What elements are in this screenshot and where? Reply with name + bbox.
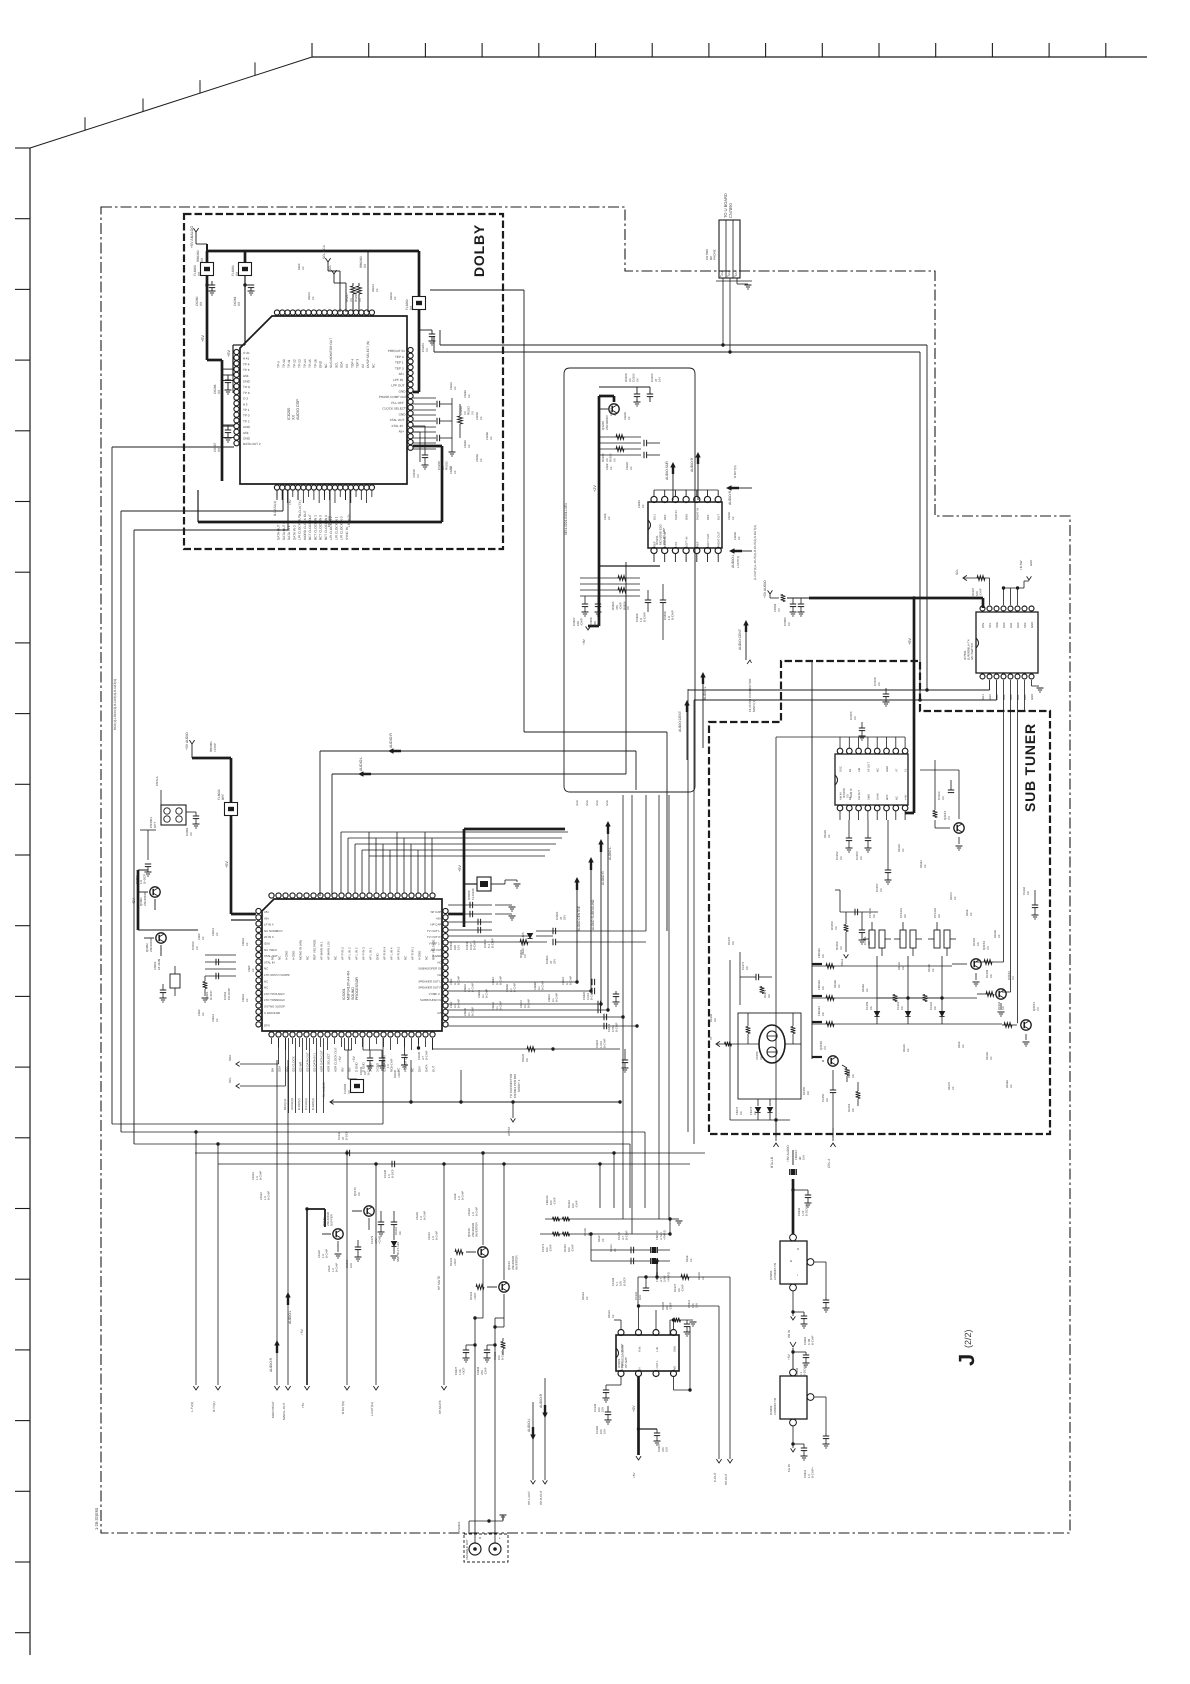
wires exit DOLBY bottom-left xyxy=(121,510,283,512)
svg-text:LTO 3OS'O OUOPF: LTO 3OS'O OUOPF xyxy=(264,973,290,977)
svg-text:A5+: A5+ xyxy=(264,910,270,914)
svg-text:XX: XX xyxy=(823,1046,827,1050)
svg-text:BCK(1)-LRCK(2)-B-DAT(2)-B-DAT(: BCK(1)-LRCK(2)-B-DAT(2)-B-DAT(4) xyxy=(113,679,117,730)
svg-text:AM IN: AM IN xyxy=(840,792,843,800)
svg-text:XX: XX xyxy=(787,622,791,626)
transistor Q6260 xyxy=(609,404,619,414)
svg-text:NC: NC xyxy=(877,768,880,772)
svg-text:25V: 25V xyxy=(553,959,557,964)
svg-text:XX: XX xyxy=(947,816,951,820)
svg-text:V REF 1: V REF 1 xyxy=(429,942,440,946)
jack caps cluster xyxy=(466,1344,475,1346)
svg-text:HP-MUTE: HP-MUTE xyxy=(438,1400,442,1414)
svg-text:B1: B1 xyxy=(849,768,852,772)
svg-text:C6232: C6232 xyxy=(450,466,453,474)
b.out and l.out drops xyxy=(346,1153,348,1385)
svg-text:XX: XX xyxy=(859,856,863,860)
svg-text:AUDIO R: AUDIO R xyxy=(539,1393,543,1408)
svg-text:LTO TONNNGO: LTO TONNNGO xyxy=(264,998,286,1002)
svg-text:MAIN (1): MAIN (1) xyxy=(752,700,756,712)
svg-text:XX: XX xyxy=(246,942,249,946)
svg-text:R OUT: R OUT xyxy=(621,1343,624,1352)
svg-text:LF50CBT-TR: LF50CBT-TR xyxy=(773,1263,777,1280)
svg-text:+5V: +5V xyxy=(639,1367,642,1372)
comb of wires into IC6001 top xyxy=(340,832,342,893)
svg-text:C6268: C6268 xyxy=(486,432,489,440)
IC7501 SCL input with resistor xyxy=(963,575,967,580)
bottom pin vertical bundle xyxy=(288,1038,290,1113)
svg-text:AUDIO DSP: AUDIO DSP xyxy=(296,399,300,420)
svg-text:L/R CLOCK IN 0: L/R CLOCK IN 0 xyxy=(340,516,344,540)
jack ground bracket xyxy=(469,1520,503,1522)
IC6801 pin wires top xyxy=(620,1320,622,1330)
audio r arrow xyxy=(695,452,701,464)
svg-text:GND: GND xyxy=(243,437,251,441)
svg-text:XX: XX xyxy=(292,414,296,420)
svg-text:DATA OUT 2: DATA OUT 2 xyxy=(243,442,261,446)
transistor Q6154 xyxy=(954,823,964,833)
svg-text:TP-13: TP-13 xyxy=(298,359,302,368)
IC6261 pin stubs bottom xyxy=(653,554,655,562)
IC7501 top pins xyxy=(980,606,985,611)
svg-text:RIGHT IN: RIGHT IN xyxy=(695,508,699,520)
svg-text:XX: XX xyxy=(745,966,749,970)
right resistors to bases xyxy=(984,960,992,965)
svg-text:XX: XX xyxy=(216,932,219,936)
svg-text:0.1: 0.1 xyxy=(454,1004,457,1008)
svg-text:C6246: C6246 xyxy=(464,440,467,448)
IC6261 top pins xyxy=(651,496,657,502)
svg-text:B-CHIP: B-CHIP xyxy=(556,993,559,1002)
svg-text:AF P IN 2: AF P IN 2 xyxy=(341,947,345,960)
long vertical buses from DOLBY to bottom xyxy=(111,447,113,1124)
svg-text:B-CHIP: B-CHIP xyxy=(590,990,594,1000)
svg-text:C6816: C6816 xyxy=(464,984,467,992)
svg-text:C6824: C6824 xyxy=(562,977,565,985)
svg-text:CH-CHIP: CH-CHIP xyxy=(227,988,231,1000)
svg-text:B-CHIP: B-CHIP xyxy=(390,1058,394,1068)
svg-text:XX: XX xyxy=(523,954,527,958)
svg-text:XX: XX xyxy=(879,888,883,892)
svg-text:B-CHIP: B-CHIP xyxy=(615,1022,619,1032)
outer board boundary (dash-dot) xyxy=(101,207,1070,1533)
audio cent arrow lower xyxy=(684,700,690,712)
svg-text:C6816: C6816 xyxy=(464,1008,467,1016)
svg-text:XX: XX xyxy=(480,416,483,420)
svg-text:TV OUT L: TV OUT L xyxy=(427,929,440,933)
svg-text:I2S DATA OUT: I2S DATA OUT xyxy=(306,1052,310,1072)
svg-text:B-CHIP: B-CHIP xyxy=(425,1050,429,1060)
svg-text:PREOUT IN: PREOUT IN xyxy=(388,349,405,353)
svg-text:CLOCK SELECT: CLOCK SELECT xyxy=(382,407,406,411)
svg-text:R6120: R6120 xyxy=(698,1272,701,1280)
svg-text:(2/2): (2/2) xyxy=(963,1329,973,1348)
junction feeds xyxy=(655,1259,658,1262)
svg-text:C600: C600 xyxy=(198,933,201,940)
svg-text:GND: GND xyxy=(886,766,889,772)
svg-text:PROCESSOR: PROCESSOR xyxy=(355,977,359,1000)
svg-text:0151-9021-0191-L9E1: 0151-9021-0191-L9E1 xyxy=(564,503,568,535)
svg-text:DA3: DA3 xyxy=(1002,622,1006,628)
svg-text:TP 4: TP 4 xyxy=(243,362,250,366)
svg-text:GND: GND xyxy=(576,800,579,806)
R6165 C6811 cluster xyxy=(670,1319,693,1321)
op IC6261 surround amp xyxy=(648,502,722,548)
svg-text:DATA: DATA xyxy=(425,1064,429,1072)
left side capacitor cluster C6266 xyxy=(222,374,233,376)
svg-text:GND: GND xyxy=(586,800,589,806)
svg-text:MSP3410Y-A4-R4: MSP3410Y-A4-R4 xyxy=(346,971,350,1000)
row3 with beads xyxy=(591,1249,670,1251)
audio cent arrow down group xyxy=(743,620,749,632)
bold +5V drop to IC left side xyxy=(206,298,209,360)
svg-text:Y1: Y1 xyxy=(905,768,908,772)
long vertical audio buses center page xyxy=(576,889,578,982)
svg-text:AM-2: AM-2 xyxy=(840,959,844,966)
svg-text:B-CHIP: B-CHIP xyxy=(260,1171,263,1180)
svg-text:NC: NC xyxy=(264,979,268,983)
svg-text:+8V AUDIO: +8V AUDIO xyxy=(786,1145,790,1162)
svg-text:AF L IN 4: AF L IN 4 xyxy=(390,947,394,960)
svg-text:3 GND: 3 GND xyxy=(376,1062,380,1072)
svg-text:IC6260: IC6260 xyxy=(287,408,291,420)
svg-text:BCT CLOCK OUT: BCT CLOCK OUT xyxy=(308,514,312,540)
svg-text:R IN: R IN xyxy=(639,1347,642,1352)
main out drop wires xyxy=(276,1060,278,1385)
svg-text:+B SW: +B SW xyxy=(1019,560,1023,570)
left RC ladder xyxy=(205,954,236,956)
svg-text:XX: XX xyxy=(252,968,255,972)
wire Q6154 collector xyxy=(958,770,960,819)
svg-text:BCT CLOCK IN 0: BCT CLOCK IN 0 xyxy=(319,515,323,540)
svg-text:NC: NC xyxy=(895,796,898,800)
svg-text:R6120: R6120 xyxy=(898,962,901,970)
IC6001 top pin row xyxy=(269,893,274,898)
svg-text:XX: XX xyxy=(454,386,457,390)
IC6001 left pin column xyxy=(256,908,261,913)
svg-text:C600: C600 xyxy=(248,965,251,972)
svg-text:XX: XX xyxy=(933,1006,937,1010)
svg-text:A GND: A GND xyxy=(418,950,422,960)
svg-text:C6228: C6228 xyxy=(626,462,629,470)
svg-text:O 3: O 3 xyxy=(243,397,248,401)
svg-text:1.0: 1.0 xyxy=(322,1254,325,1258)
IC7501 pin2 wire from I2C bus xyxy=(919,352,921,700)
svg-text:TP-15: TP-15 xyxy=(308,359,312,368)
svg-text:+5V: +5V xyxy=(458,865,462,872)
svg-text:18.432M: 18.432M xyxy=(157,958,161,970)
svg-text:XX: XX xyxy=(202,936,205,940)
svg-text:C616: C616 xyxy=(454,1193,457,1200)
svg-text:DUFFER: DUFFER xyxy=(330,1214,334,1226)
svg-text:L IN: L IN xyxy=(656,1347,659,1352)
audio direction arrows center xyxy=(574,877,580,890)
svg-text:XX: XX xyxy=(1036,1007,1040,1011)
svg-text:TP 0: TP 0 xyxy=(243,414,250,418)
svg-text:AF OUT: AF OUT xyxy=(867,762,870,772)
svg-text:+CHIP: +CHIP xyxy=(213,743,217,752)
svg-text:PHASE COMP OUT: PHASE COMP OUT xyxy=(379,395,407,399)
svg-text:I20U: I20U xyxy=(264,942,270,946)
svg-text:A GND: A GND xyxy=(432,954,441,958)
svg-text:SCL: SCL xyxy=(988,622,992,628)
svg-text:MONO IN (AN): MONO IN (AN) xyxy=(299,940,303,960)
svg-text:A 41: A 41 xyxy=(243,357,249,361)
svg-text:XX: XX xyxy=(902,848,905,852)
svg-text:B-CHIP: B-CHIP xyxy=(603,1038,607,1048)
svg-text:SDA: SDA xyxy=(995,622,999,628)
filter FL6003 xyxy=(351,1080,364,1093)
svg-text:D+DCP: D+DCP xyxy=(143,874,147,884)
svg-text:B-DCP: B-DCP xyxy=(391,1169,395,1178)
svg-text:1.0: 1.0 xyxy=(256,1176,259,1180)
IC6261 bottom pins xyxy=(651,547,657,553)
svg-text:BH: BH xyxy=(271,1068,275,1072)
svg-text:+5V: +5V xyxy=(132,898,136,905)
svg-text:+5V AUDIO: +5V AUDIO xyxy=(763,580,767,598)
svg-text:OSTNG 3UOOF: OSTNG 3UOOF xyxy=(264,1005,285,1009)
svg-text:XX: XX xyxy=(825,1098,829,1102)
svg-text:XX: XX xyxy=(753,1111,757,1115)
svg-text:B3: B3 xyxy=(849,796,852,800)
svg-text:XX: XX xyxy=(986,946,990,950)
svg-text:LEFT OUT: LEFT OUT xyxy=(706,533,710,547)
svg-text:XX: XX xyxy=(1001,1006,1005,1010)
svg-text:B-DCP: B-DCP xyxy=(345,1131,349,1140)
svg-text:XX: XX xyxy=(586,1296,589,1300)
svg-text:R618: R618 xyxy=(686,1255,689,1262)
svg-text:XX: XX xyxy=(970,912,973,916)
audio R fat arrow on bus xyxy=(388,748,401,754)
svg-text:0.1: 0.1 xyxy=(482,994,485,998)
svg-text:R6150: R6150 xyxy=(928,964,931,972)
svg-text:AUDIO L: AUDIO L xyxy=(527,1418,531,1432)
cn6001 caps xyxy=(186,811,196,813)
svg-text:XX: XX xyxy=(731,941,735,945)
svg-text:TP 2: TP 2 xyxy=(243,419,250,423)
svg-text:XX: XX xyxy=(349,298,353,302)
svg-text:C6232: C6232 xyxy=(450,382,453,390)
left crystal cluster xyxy=(170,974,180,988)
svg-text:A 5: A 5 xyxy=(243,402,248,406)
+5V pins and FL6003 xyxy=(344,1038,346,1050)
svg-text:+HV: +HV xyxy=(905,794,908,800)
svg-text:TP-14: TP-14 xyxy=(303,359,307,368)
svg-text:XX: XX xyxy=(630,466,633,470)
svg-text:R6210: R6210 xyxy=(308,292,311,300)
svg-text:XX: XX xyxy=(358,298,362,302)
svg-text:AF L IN 1: AF L IN 1 xyxy=(369,947,373,960)
crystal X6260 cluster xyxy=(413,425,425,427)
svg-text:NC: NC xyxy=(264,967,268,971)
svg-text:C6844: C6844 xyxy=(492,1002,495,1010)
IC7501 output wires down to tuner xyxy=(1003,680,1005,712)
svg-text:V REF 2: V REF 2 xyxy=(429,992,440,996)
svg-text:AF R IN 1: AF R IN 1 xyxy=(411,946,415,960)
svg-text:R6120: R6120 xyxy=(898,844,901,852)
transistor Q6176 xyxy=(364,1206,374,1216)
svg-text:SCL: SCL xyxy=(228,1077,232,1083)
bead L6003 xyxy=(781,595,786,602)
filter FL6261 xyxy=(239,263,252,276)
svg-text:XX: XX xyxy=(626,606,630,610)
svg-text:+CHIP: +CHIP xyxy=(378,1236,382,1244)
svg-text:2SC4081R: 2SC4081R xyxy=(605,414,609,430)
svg-text:OU1: OU1 xyxy=(653,514,657,520)
svg-text:C-OUT: C-OUT xyxy=(713,1472,717,1482)
svg-text:2SC4081R: 2SC4081R xyxy=(149,938,153,952)
svg-text:G: G xyxy=(790,1259,792,1263)
svg-text:GND: GND xyxy=(319,360,323,368)
page border ruler, left edge xyxy=(29,148,31,1655)
audio arrows on drops xyxy=(274,1340,280,1353)
svg-text:C6014: C6014 xyxy=(212,1014,215,1022)
svg-text:B-CHIP: B-CHIP xyxy=(424,1211,427,1220)
svg-text:SUBWOOFER OUT: SUBWOOFER OUT xyxy=(418,967,444,971)
svg-text:+5V: +5V xyxy=(201,335,205,342)
op IC6150 sub tuner IF xyxy=(835,754,908,805)
svg-text:C682: C682 xyxy=(450,978,453,985)
svg-text:AUDIO L: AUDIO L xyxy=(359,757,363,771)
svg-text:-CHIP: -CHIP xyxy=(979,588,983,596)
svg-text:C600: C600 xyxy=(198,1009,201,1016)
svg-text:CN6802: CN6802 xyxy=(457,1521,461,1532)
svg-text:C6872: C6872 xyxy=(520,1000,523,1008)
IC6802 feed xyxy=(792,1348,794,1369)
svg-text:D5V: D5V xyxy=(418,1066,422,1072)
svg-text:LPF OUT: LPF OUT xyxy=(391,384,404,388)
svg-text:TP-16: TP-16 xyxy=(313,359,317,368)
svg-text:SOUND: SOUND xyxy=(351,987,355,1000)
svg-text:A54: A54 xyxy=(243,431,249,435)
svg-text:B-DCP: B-DCP xyxy=(622,1277,626,1286)
svg-text:CRL-2: CRL-2 xyxy=(827,1159,831,1168)
svg-text:C6230: C6230 xyxy=(728,512,731,520)
output coupling rows xyxy=(448,981,577,983)
svg-text:16V: 16V xyxy=(349,1263,353,1268)
bold +5V drop xyxy=(306,1209,308,1385)
svg-text:XX: XX xyxy=(480,458,483,462)
svg-text:R6136: R6136 xyxy=(834,980,837,988)
svg-text:XX: XX xyxy=(903,914,907,918)
svg-text:XX: XX xyxy=(907,1048,910,1052)
op IC6801 headphone amp xyxy=(616,1335,679,1371)
svg-text:AF P IN 3: AF P IN 3 xyxy=(362,947,366,960)
svg-text:SUB TUNER: SUB TUNER xyxy=(1022,723,1038,812)
varicap oscillator module xyxy=(738,1013,801,1099)
caps below amp xyxy=(645,599,651,601)
svg-text:1.0: 1.0 xyxy=(458,1196,461,1200)
svg-text:XX: XX xyxy=(416,474,420,478)
IC6802 wires xyxy=(814,1396,826,1398)
bottom pin stubs xyxy=(276,490,278,497)
svg-text:I5V: I5V xyxy=(341,1067,345,1072)
svg-text:LTO TOOLNGO: LTO TOOLNGO xyxy=(264,992,285,996)
op IC6802 buffer xyxy=(780,1376,807,1419)
svg-text:1R OUT: 1R OUT xyxy=(621,1362,624,1372)
row right ends xyxy=(669,1219,671,1234)
svg-text:XX: XX xyxy=(976,942,980,946)
svg-text:R620: R620 xyxy=(298,263,301,270)
svg-text:AUDIO CENT: AUDIO CENT xyxy=(678,711,682,732)
svg-text:DA6: DA6 xyxy=(1009,694,1013,700)
SUB TUNER section box xyxy=(709,661,1050,1134)
svg-text:XX: XX xyxy=(614,1248,617,1252)
svg-text:C6110: C6110 xyxy=(428,1232,431,1240)
svg-text:TP-11: TP-11 xyxy=(287,359,291,368)
svg-text:R6110: R6110 xyxy=(608,1310,611,1318)
svg-text:0.1: 0.1 xyxy=(510,988,513,992)
svg-text:R610: R610 xyxy=(598,1235,601,1242)
svg-text:XX: XX xyxy=(189,832,193,836)
svg-text:B-CHIP: B-CHIP xyxy=(458,976,461,985)
wires from buses into hp amp rows xyxy=(658,1208,660,1219)
svg-text:1-28-32(E60: 1-28-32(E60 xyxy=(94,1507,99,1530)
bold wire right side of IC6260 xyxy=(418,251,421,296)
svg-text:AUDIO SURROUND: AUDIO SURROUND xyxy=(591,899,595,930)
amp top RC cluster xyxy=(599,386,650,388)
svg-text:+5V: +5V xyxy=(632,1473,636,1478)
svg-text:0.1: 0.1 xyxy=(566,981,569,985)
svg-text:DATA OUT 8: DATA OUT 8 xyxy=(282,522,286,540)
svg-text:C682: C682 xyxy=(450,1001,453,1008)
svg-text:PHONE: PHONE xyxy=(713,249,717,260)
audio arrows to hp jacks xyxy=(532,1402,534,1480)
svg-text:+5V: +5V xyxy=(908,638,912,645)
svg-text:L-TV(3): L-TV(3) xyxy=(190,1402,194,1412)
svg-text:GND: GND xyxy=(596,800,599,806)
svg-text:XX: XX xyxy=(702,1276,705,1280)
svg-text:AUDIO R: AUDIO R xyxy=(728,490,732,505)
svg-text:1.0: 1.0 xyxy=(472,1212,475,1216)
svg-text:AUDIO CENT: AUDIO CENT xyxy=(738,629,742,650)
svg-text:+5V: +5V xyxy=(288,500,292,505)
svg-text:R6170: R6170 xyxy=(948,1082,951,1090)
svg-text:X2: X2 xyxy=(361,364,365,368)
capacitor C6261 with ground xyxy=(244,276,246,291)
svg-text:XX: XX xyxy=(468,444,471,448)
svg-text:GN0: GN0 xyxy=(988,694,992,700)
svg-text:TP 6: TP 6 xyxy=(243,368,250,372)
svg-text:XX: XX xyxy=(853,716,857,720)
IC7501 bottom pins xyxy=(980,674,985,679)
svg-text:TOP 3: TOP 3 xyxy=(356,359,360,368)
IC6150 top pins xyxy=(837,748,843,754)
left side capacitor cluster C6267 xyxy=(225,429,231,431)
svg-text:ATEST: ATEST xyxy=(507,1126,511,1136)
svg-text:AM OUT: AM OUT xyxy=(431,948,442,952)
svg-text:1.0: 1.0 xyxy=(432,1236,435,1240)
svg-text:C6810: C6810 xyxy=(548,994,551,1002)
svg-text:REF: REF xyxy=(653,541,657,547)
svg-text:C6258: C6258 xyxy=(476,454,479,462)
osc left components xyxy=(716,1041,720,1046)
connector CN6001 optical xyxy=(161,805,186,825)
svg-text:0.1: 0.1 xyxy=(454,981,457,985)
svg-text:16V: 16V xyxy=(665,1447,669,1452)
svg-text:GAIN: GAIN xyxy=(877,793,880,800)
svg-text:REF: REF xyxy=(663,514,667,520)
svg-text:AUDIO R: AUDIO R xyxy=(601,871,605,885)
svg-text:NC: NC xyxy=(438,973,442,977)
svg-text:XX: XX xyxy=(937,914,941,918)
svg-text:MPF: MPF xyxy=(886,794,889,800)
svg-text:L/R CLOCK OUT: L/R CLOCK OUT xyxy=(298,516,302,540)
svg-text:+5V: +5V xyxy=(225,861,229,868)
svg-text:-CHIP: -CHIP xyxy=(597,618,601,626)
svg-text:XX: XX xyxy=(690,1258,693,1262)
svg-text:NC: NC xyxy=(438,960,442,964)
